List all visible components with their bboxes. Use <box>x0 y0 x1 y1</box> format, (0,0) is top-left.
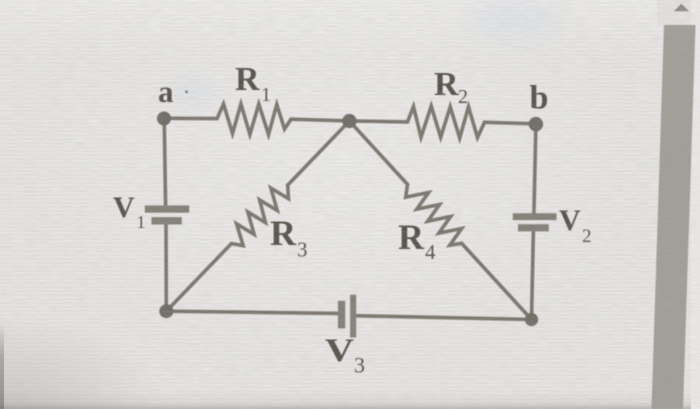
scrollbar up-arrow <box>674 4 689 11</box>
wire center node to resistor R2 <box>349 121 407 122</box>
speck near a <box>185 91 188 94</box>
battery V3 short plate <box>338 301 345 329</box>
scrollbar right white strip <box>691 0 700 409</box>
scrollbar track top area <box>657 0 700 26</box>
wire resistor R4 to bottom-right node <box>462 243 532 319</box>
node between R1 and R2 <box>342 114 356 128</box>
wire: right vertical lower (V2 to bottom-right) <box>532 231 534 320</box>
wire: left vertical lower (V1 to bottom-left) <box>164 224 168 312</box>
battery V1 short plate <box>152 217 182 224</box>
node b dot <box>529 117 543 131</box>
wire: bottom-left to V3 <box>166 311 338 313</box>
wire resistor R2 to node b <box>485 122 536 124</box>
wire: left vertical upper (a to V1) <box>164 118 165 206</box>
wire resistor R1 to center node <box>291 119 349 121</box>
resistor R4 <box>406 184 462 245</box>
resistor R3 <box>232 185 289 246</box>
resistor R2 <box>408 106 485 138</box>
node a dot <box>157 112 171 126</box>
battery V3 long plate <box>350 295 356 338</box>
wire resistor R3 to bottom-left node <box>166 244 231 312</box>
node bottom-right <box>525 313 538 326</box>
wire node a to resistor R1 <box>164 117 217 121</box>
battery V2 long plate <box>513 213 557 220</box>
wire: V3 to bottom-right <box>356 316 532 320</box>
node bottom-left <box>159 304 173 318</box>
wire center node to resistor R4 <box>349 121 407 184</box>
battery V1 long plate <box>145 205 189 212</box>
wire: right vertical upper (b to V2) <box>534 124 536 214</box>
scrollbar thumb <box>652 25 696 409</box>
resistor R1 <box>217 104 291 135</box>
battery V2 short plate <box>518 224 549 231</box>
wire center node to resistor R3 <box>288 121 350 185</box>
